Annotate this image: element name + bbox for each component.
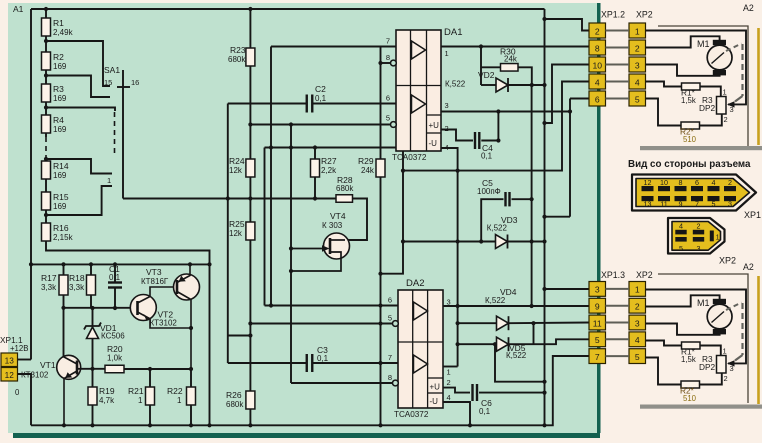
svg-text:3: 3: [445, 101, 449, 110]
svg-text:C2: C2: [315, 84, 326, 94]
wire main right vertical: [544, 9, 546, 425]
svg-text:XP2: XP2: [636, 270, 653, 280]
svg-text:5: 5: [679, 244, 683, 253]
wire SA1 output row: [123, 198, 336, 200]
resistor R14: [42, 161, 51, 179]
VT2 base bar: [136, 301, 139, 315]
connector pin 8: [589, 40, 606, 55]
junction pin1 row / feedback: [479, 44, 483, 48]
wire DA1 pin1 row to XP1.2 pin8: [441, 46, 589, 48]
teal right border of panel A1: [597, 3, 601, 433]
capacitor C6: [471, 384, 473, 401]
svg-text:5: 5: [386, 114, 390, 123]
junction R1-R2 node: [44, 39, 48, 43]
wire +12V vertical upper part already drawn; pin13 joins: [30, 264, 32, 359]
wire row 217 stub: [545, 216, 571, 218]
wire SA1 contact branch 15: [46, 76, 110, 98]
wire DA2 pin1 row: [443, 366, 458, 368]
svg-text:4: 4: [679, 221, 683, 230]
wire DA2 pin5 row: [250, 323, 392, 325]
svg-text:13: 13: [5, 356, 15, 366]
transistor VT2: [130, 295, 156, 321]
resistor R3: [42, 84, 51, 102]
wire XP2 pin3 to motor bottom brush: [646, 324, 720, 335]
svg-text:3: 3: [728, 199, 732, 208]
wire R1* to R3 pin1: [700, 346, 721, 356]
connector pin 10: [589, 57, 606, 72]
svg-text:12k: 12k: [229, 229, 243, 238]
svg-text:24k: 24k: [361, 166, 375, 175]
svg-text:-U: -U: [430, 397, 439, 406]
DA2 amp triangle upper: [414, 302, 428, 320]
svg-text:VT4: VT4: [330, 211, 346, 221]
svg-text:169: 169: [53, 202, 67, 211]
junction VT1 emitter / bus: [62, 423, 66, 427]
svg-text:7: 7: [386, 37, 390, 46]
wire x291 vertical: [290, 125, 292, 384]
wire row147 right end down x403: [381, 148, 404, 274]
resistor R29: [376, 159, 385, 177]
connector pin 2: [629, 298, 646, 313]
capacitor C3: [306, 354, 308, 372]
wire XP2 pin4 to R1*: [646, 82, 682, 87]
wire C4 right to pin3 bridge: [481, 140, 498, 142]
svg-text:4: 4: [447, 393, 451, 402]
junction rail / R18: [89, 262, 93, 266]
VT3 emitter lead down: [177, 292, 191, 370]
svg-text:15: 15: [104, 78, 112, 87]
svg-text:1: 1: [177, 396, 182, 405]
capacitor C1: [114, 264, 116, 282]
connector pin 2: [589, 23, 606, 38]
wire VD4 row to XP1.3 pin11: [509, 322, 590, 325]
svg-text:R23: R23: [230, 45, 246, 55]
svg-text:0,1: 0,1: [481, 152, 493, 161]
svg-text:1: 1: [723, 88, 727, 97]
svg-text:M1: M1: [697, 298, 710, 308]
svg-text:+U: +U: [430, 383, 441, 392]
svg-text:XP1: XP1: [744, 210, 761, 220]
svg-text:К,522: К,522: [485, 296, 506, 305]
motor commutator diagonal: [712, 53, 725, 64]
wire R17 bottom to base row and VT1 collector: [63, 295, 65, 357]
VT4 gate lead with arrow: [291, 248, 327, 250]
resistor R27: [311, 159, 320, 177]
junction -U vertical / row170: [456, 169, 460, 173]
junction C5 left / VD3 row: [479, 239, 483, 243]
wire C4 bridge vertical: [497, 112, 499, 141]
junction -U chain / pin9 row: [456, 304, 460, 308]
svg-text:3,3k: 3,3k: [69, 283, 85, 292]
junction top bus corner to pin2 branch: [542, 17, 546, 21]
svg-text:R2: R2: [53, 52, 64, 62]
connector pin 4: [629, 332, 646, 347]
svg-text:VT1: VT1: [40, 360, 56, 370]
svg-text:2: 2: [447, 378, 451, 387]
svg-text:R3: R3: [53, 84, 64, 94]
svg-text:+U: +U: [429, 121, 440, 130]
svg-text:680k: 680k: [226, 400, 244, 409]
VT4 source lead: [291, 252, 341, 271]
connector XP2 face inner: [672, 222, 721, 251]
svg-text:R22: R22: [167, 386, 183, 396]
connector XP1 face inner: [636, 179, 750, 207]
connector pin 6: [589, 91, 606, 106]
potentiometer R3 DP2: [717, 97, 727, 115]
diode VD1 zener: [92, 308, 94, 326]
svg-text:1,5k: 1,5k: [681, 355, 696, 364]
junction R14 node: [44, 157, 48, 161]
svg-text:ТСА0372: ТСА0372: [392, 153, 427, 162]
wire ground bottom bus: [31, 356, 589, 425]
resistor R1*: [682, 83, 701, 90]
junction rail / C1: [113, 262, 117, 266]
svg-text:2: 2: [697, 221, 701, 230]
junction bottom bus / R26: [248, 423, 252, 427]
svg-text:1: 1: [445, 49, 449, 58]
mechanical link dashed diagonal: [726, 303, 742, 311]
svg-text:24k: 24k: [504, 55, 518, 64]
VT2 collector lead to VT3 base: [138, 287, 178, 303]
junction rail / R17: [61, 262, 65, 266]
wire C6 right row: [479, 392, 545, 394]
connector pin 11: [589, 315, 606, 330]
svg-text:2: 2: [635, 43, 640, 53]
junction SA1 row / x227 vertical: [226, 196, 230, 200]
junction VD4 cathode / link: [531, 321, 535, 325]
junction top bus / R1: [44, 7, 48, 11]
svg-text:2,15k: 2,15k: [53, 233, 74, 242]
svg-text:680k: 680k: [228, 55, 246, 64]
svg-text:R24: R24: [229, 156, 245, 166]
svg-text:R29: R29: [358, 156, 374, 166]
svg-text:1: 1: [723, 347, 727, 356]
svg-text:DA2: DA2: [406, 278, 424, 289]
svg-text:0,1: 0,1: [315, 94, 327, 103]
svg-text:Вид со стороны разъема: Вид со стороны разъема: [628, 159, 751, 170]
svg-text:3: 3: [697, 244, 701, 253]
svg-text:10: 10: [592, 60, 602, 70]
mechanical link dashed: [741, 44, 743, 96]
junction VD2 row / main vertical: [542, 83, 546, 87]
junction base row / C1: [113, 306, 117, 310]
junction pin9 row / feedback vertical: [530, 304, 534, 308]
wire R3 pin2 to R2*: [700, 373, 722, 385]
wire pin10 staircase: [545, 65, 590, 124]
svg-text:+12В: +12В: [10, 344, 28, 353]
motor commutator diagonal: [712, 312, 725, 323]
wire SA1 contact branch 16: [46, 41, 110, 86]
junction SA1 row / R27: [313, 196, 317, 200]
svg-text:A2: A2: [743, 3, 754, 13]
dashed ladder continuation: [45, 137, 47, 158]
connector pin 3: [589, 282, 606, 297]
wire XP2 pin4 to R1*: [646, 341, 682, 346]
svg-text:169: 169: [53, 171, 67, 180]
op-amp DA1 body: [396, 30, 441, 151]
junction gate / x291: [289, 246, 293, 250]
junction R3-R4 node: [44, 105, 48, 109]
DA2 inversion bubble pin5: [393, 321, 399, 327]
wire DA1 -U pin4 down: [441, 148, 458, 367]
XP2 face pin 1: [710, 231, 714, 242]
R3 wiper arrowhead: [727, 101, 735, 107]
junction row147 / R27: [313, 145, 317, 149]
wire SA1 contact branch lower: [46, 159, 112, 174]
connector XP1 face outer: [632, 175, 756, 211]
R3 wiper arrowhead: [727, 360, 735, 366]
svg-text:3: 3: [635, 318, 640, 328]
resistor R21: [149, 369, 151, 387]
junction VD3 / main vertical: [542, 239, 546, 243]
svg-text:1: 1: [716, 233, 720, 242]
connector pin 5: [629, 349, 646, 364]
resistor R26: [246, 391, 255, 409]
wire DA2 pin8 row: [291, 382, 393, 384]
VT1 base bar: [76, 361, 79, 375]
junction R20 row / VT3 emitter R22: [189, 367, 193, 371]
wire row170 to XP1.2 pin4: [403, 82, 589, 171]
wire VT2 base row: [64, 307, 138, 309]
wire VD5 row to XP1.3 pin5: [509, 339, 590, 344]
svg-text:XP2: XP2: [719, 256, 736, 266]
svg-text:12: 12: [5, 370, 15, 380]
svg-text:169: 169: [53, 62, 67, 71]
wire SA1 contact branch mid: [46, 108, 115, 112]
wire R18 bottom to VT2 base row: [90, 295, 92, 308]
connector pin 2: [629, 40, 646, 55]
svg-text:5: 5: [388, 314, 392, 323]
resistor R18: [90, 264, 92, 275]
wire C2 row to DA1 pin6: [228, 103, 307, 105]
svg-text:1: 1: [447, 368, 451, 377]
resistor R19: [88, 387, 97, 405]
wire feedback vertical VD2-C5-VD3 to pin9: [531, 85, 533, 306]
wire R28 to VT4 drain: [345, 199, 367, 241]
wire VD4-VD5 cathode link: [533, 323, 535, 344]
resistor R4: [42, 115, 51, 133]
DA1 inversion bubble pin5: [391, 122, 397, 128]
svg-text:12k: 12k: [229, 166, 243, 175]
gold edge line: [757, 28, 760, 145]
svg-text:R20: R20: [107, 344, 123, 354]
junction -U chain / VD3 row: [456, 239, 460, 243]
mechanical link dashed diagonal: [726, 44, 742, 52]
svg-text:R26: R26: [226, 390, 242, 400]
junction +12V vertical / rail: [29, 262, 33, 266]
dashed SA1 middle contacts: [114, 112, 116, 155]
wire row 147 rail: [265, 147, 404, 149]
svg-text:R15: R15: [53, 192, 69, 202]
wire XP2 pin3 to motor bottom brush: [646, 65, 720, 76]
svg-text:1: 1: [635, 26, 640, 36]
svg-text:6: 6: [595, 94, 600, 104]
junction C3 row / ground vertical: [378, 361, 382, 365]
svg-text:ТСА0372: ТСА0372: [394, 410, 429, 419]
svg-text:169: 169: [53, 125, 67, 134]
svg-text:R4: R4: [53, 115, 64, 125]
wire DA2 -U to ground bus: [443, 402, 470, 425]
wire rail R16 net: [46, 242, 210, 425]
resistor R16: [42, 223, 51, 241]
svg-text:XP2: XP2: [636, 10, 653, 20]
svg-text:3: 3: [730, 364, 734, 373]
svg-text:VD2: VD2: [478, 70, 495, 80]
svg-text:2,49k: 2,49k: [53, 28, 74, 37]
grey link wires XP1.2-XP2 top: [606, 30, 630, 32]
DA2 inversion bubble pin8: [393, 380, 399, 386]
svg-text:7: 7: [595, 352, 600, 362]
resistor R30 horizontal: [481, 66, 501, 68]
mechanical link dashed: [741, 303, 743, 355]
svg-text:2,2k: 2,2k: [321, 166, 337, 175]
junction row147 / x291: [289, 145, 293, 149]
svg-text:5: 5: [635, 352, 640, 362]
resistor R2*: [681, 381, 700, 388]
wire R29 bottom ground chain: [380, 177, 382, 426]
svg-text:К,522: К,522: [506, 351, 527, 360]
capacitor C2: [306, 95, 308, 113]
connector XP1.1 pin 13: [1, 353, 18, 367]
VT3 base bar: [176, 280, 179, 294]
svg-text:A1: A1: [13, 4, 24, 14]
svg-text:9: 9: [679, 199, 683, 208]
junction VD1 / R20 row: [90, 367, 94, 371]
VT2 emitter arrow: [144, 314, 150, 321]
DA2 amp triangle lower: [414, 355, 428, 373]
svg-text:100пФ: 100пФ: [477, 187, 501, 196]
wire XP2 pin5 to R2*: [646, 358, 682, 385]
wire VD5 anode drop to main vertical: [495, 344, 545, 382]
svg-text:R1: R1: [53, 18, 64, 28]
svg-text:DA1: DA1: [444, 27, 462, 38]
svg-text:XP1.3: XP1.3: [601, 270, 625, 280]
svg-text:169: 169: [53, 94, 67, 103]
svg-text:SA1: SA1: [104, 65, 120, 75]
wire x227 vertical: [227, 104, 229, 364]
wire XP2 pin2 to motor top brush: [646, 295, 720, 306]
svg-text:R14: R14: [53, 161, 69, 171]
connector pin 4: [629, 74, 646, 89]
wire DA1 pin5 row: [250, 124, 390, 126]
capacitor C4: [474, 132, 476, 149]
junction SA1 row / R24-R25: [248, 196, 252, 200]
grey bottom bar of A2: [640, 405, 762, 409]
wire XP2 pin1 to R3 wiper: [646, 31, 747, 105]
wire XP1.3 pin3 entry: [545, 288, 590, 290]
svg-text:DP2: DP2: [699, 103, 716, 113]
svg-text:M1: M1: [697, 39, 710, 49]
svg-text:11: 11: [660, 199, 667, 208]
svg-text:680k: 680k: [336, 184, 354, 193]
svg-text:8: 8: [595, 43, 600, 53]
svg-text:510: 510: [683, 394, 697, 403]
VT3 collector lead up: [177, 264, 190, 282]
svg-text:2: 2: [595, 26, 600, 36]
green circuit board panel A1: [8, 3, 600, 433]
block A2 border: [658, 274, 748, 403]
wire DA2 +U to C6: [443, 388, 470, 393]
svg-text:16: 16: [131, 78, 139, 87]
svg-text:5: 5: [635, 94, 640, 104]
svg-text:7: 7: [695, 199, 699, 208]
wire DA1 pin3 row: [441, 111, 570, 113]
wire DA2 pin6 row: [265, 305, 399, 307]
resistor R24: [246, 159, 255, 177]
svg-text:R16: R16: [53, 223, 69, 233]
wire feedback down: [480, 47, 482, 86]
svg-text:DP2: DP2: [699, 362, 716, 372]
resistor R2*: [681, 122, 700, 129]
wire x264 vertical to DA2 pin6: [264, 148, 266, 306]
svg-text:К,522: К,522: [487, 224, 508, 233]
svg-text:10: 10: [660, 178, 668, 187]
junction main vertical / pin10 branch: [542, 121, 546, 125]
svg-text:2: 2: [724, 374, 728, 383]
junction top bus / R23: [248, 7, 252, 11]
connector pin 9: [589, 298, 606, 313]
wire XP1.1 pin12 to ground: [18, 374, 32, 425]
svg-text:6: 6: [388, 296, 392, 305]
svg-text:3: 3: [595, 285, 600, 295]
junction R25 / DA2 pin5 row: [248, 321, 252, 325]
VT2 emitter lead: [138, 312, 191, 328]
connector pin 7: [589, 349, 606, 364]
wire DA1 pin7 row: [271, 46, 396, 48]
VT1 emitter arrow: [65, 372, 72, 378]
wire SA1 contact branch 1: [46, 186, 112, 215]
resistor R17: [63, 264, 65, 275]
transistor VT1: [57, 355, 81, 379]
svg-text:R25: R25: [229, 219, 245, 229]
svg-text:4: 4: [595, 77, 600, 87]
wire XP2 pin1 to R3 wiper: [646, 290, 747, 364]
op-amp DA2 body: [398, 290, 443, 408]
svg-text:R17: R17: [41, 273, 57, 283]
junction feedback vertical / VD3 row: [530, 239, 534, 243]
svg-text:4,7k: 4,7k: [99, 396, 115, 405]
junction source / x291: [289, 269, 293, 273]
transistor VT4: [324, 233, 350, 259]
svg-text:1: 1: [107, 176, 111, 185]
resistor R1: [42, 18, 51, 36]
junction R2-R3 node: [44, 73, 48, 77]
connector pin 5: [589, 332, 606, 347]
connector pin 1: [629, 23, 646, 38]
svg-text:0,1: 0,1: [317, 354, 329, 363]
teal bottom bar: [13, 433, 600, 438]
wire R23 column vertical: [249, 9, 251, 48]
svg-text:КТ3102: КТ3102: [21, 371, 49, 380]
svg-text:VT3: VT3: [146, 267, 162, 277]
junction R20 row / R21: [148, 367, 152, 371]
svg-text:XP1.2: XP1.2: [601, 10, 625, 20]
connector pin 1: [629, 282, 646, 297]
svg-text:1,5k: 1,5k: [681, 96, 696, 105]
VT1 collector lead from R17 column: [64, 356, 77, 365]
VT1 emitter lead down: [64, 371, 77, 425]
diode VD2: [481, 84, 496, 86]
junction VD2 R30 out: [530, 83, 534, 87]
svg-text:R19: R19: [99, 386, 115, 396]
VT4 drain lead inside: [330, 239, 345, 241]
block A2 border: [658, 26, 748, 147]
VT4 channel bar: [329, 238, 332, 254]
gold edge line: [757, 276, 760, 404]
svg-text:0: 0: [15, 388, 20, 397]
svg-text:КТ3102: КТ3102: [150, 319, 178, 328]
svg-text:7: 7: [388, 353, 392, 362]
